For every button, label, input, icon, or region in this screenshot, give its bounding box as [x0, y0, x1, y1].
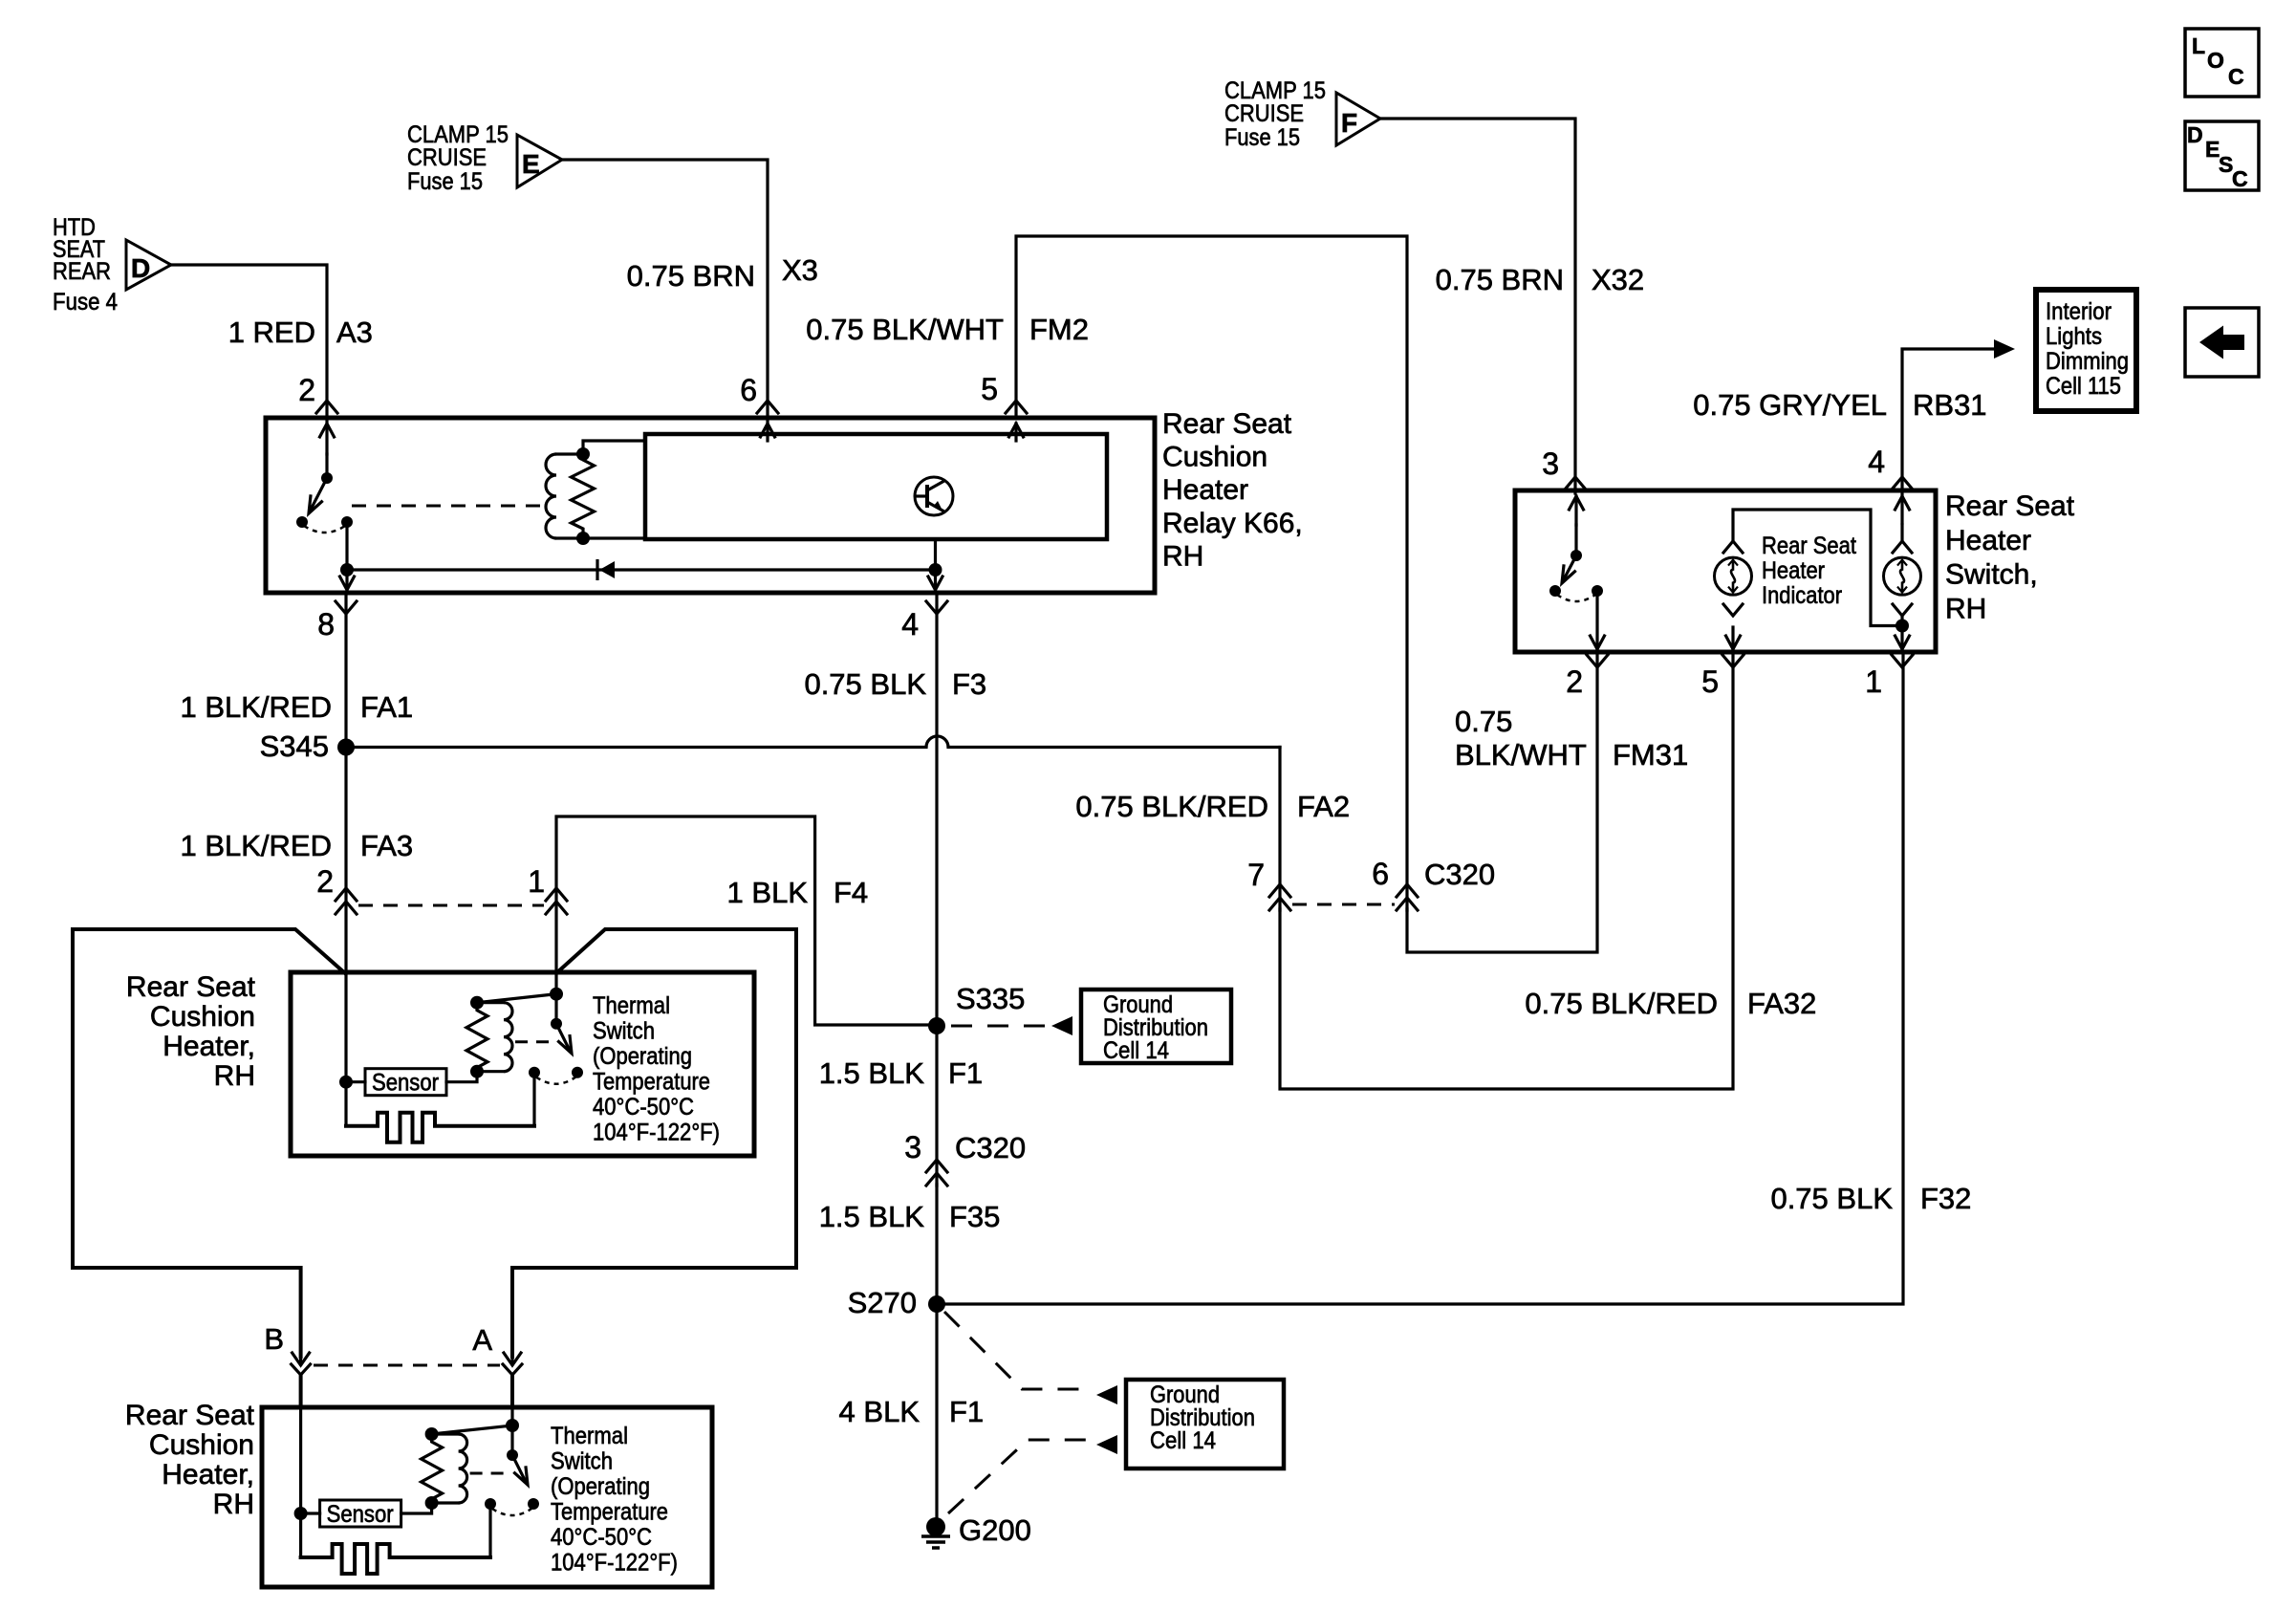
- relay pin 8 number: [317, 607, 335, 642]
- svg-text:Rear Seat: Rear Seat: [1162, 408, 1292, 440]
- label 0.75 BLK F3: [804, 667, 986, 701]
- svg-text:0.75 BLK/RED: 0.75 BLK/RED: [1075, 790, 1268, 823]
- heater1 RC junction dots: [470, 996, 484, 1078]
- switch lamp 2 chevrons: [1893, 541, 1912, 616]
- Interior Lights Dimming Cell 115 box: [2036, 290, 2136, 411]
- svg-text:Heater,: Heater,: [162, 1459, 254, 1490]
- svg-text:FA3: FA3: [360, 829, 413, 862]
- svg-text:Cell 14: Cell 14: [1103, 1037, 1169, 1064]
- wire RB31 switch pin4 to Interior Lights Dimming (0.75 GRY/YEL): [1902, 339, 2015, 493]
- heater 2 label: [125, 1400, 255, 1520]
- svg-text:4: 4: [1868, 445, 1885, 479]
- label 0.75 BLK/WHT FM2: [806, 313, 1089, 346]
- label G200: [959, 1513, 1031, 1547]
- svg-text:1 BLK/RED: 1 BLK/RED: [180, 690, 332, 724]
- heater1 heating element: [346, 1113, 534, 1142]
- svg-text:FM2: FM2: [1029, 313, 1089, 346]
- relay pin 8 wire and terminal: [336, 522, 357, 614]
- wire F to switch pin 3 (0.75 BRN X32): [1380, 119, 1575, 493]
- heater1 sensor left junction dot: [339, 1076, 353, 1089]
- heater1 switch to element wire: [532, 1073, 535, 1126]
- svg-text:2: 2: [1566, 664, 1583, 699]
- fuse D text: [53, 214, 118, 315]
- heater connector pin 2 number: [316, 864, 334, 899]
- svg-text:F32: F32: [1920, 1182, 1971, 1215]
- wire E to relay pin 6 (0.75 BRN X3): [562, 160, 768, 421]
- svg-text:Rear Seat: Rear Seat: [126, 971, 256, 1003]
- heater2 thermal switch dashed arc: [492, 1509, 531, 1515]
- svg-text:Sensor: Sensor: [372, 1070, 439, 1097]
- svg-text:1 BLK: 1 BLK: [727, 876, 809, 909]
- switch pin 2 number: [1566, 664, 1583, 699]
- svg-text:Switch: Switch: [593, 1018, 655, 1045]
- switch pin 5 wire and terminal: [1722, 627, 1744, 667]
- svg-text:(Operating: (Operating: [593, 1043, 692, 1070]
- svg-text:Cushion: Cushion: [150, 1001, 255, 1033]
- heater1 right pin junction dot: [550, 988, 563, 1001]
- label 1.5 BLK F1: [819, 1056, 984, 1090]
- indicator lamp text: [1762, 533, 1856, 609]
- svg-text:F3: F3: [952, 667, 986, 701]
- fuse symbol F (CLAMP 15 CRUISE Fuse 15): [1336, 93, 1380, 145]
- heater1 thermal switch wire: [554, 972, 557, 1024]
- wire FA32 C320 pin7 to switch pin 5 (0.75 BLK/RED): [1280, 654, 1733, 1089]
- wire F4 heater pin1 to S335 (1 BLK): [556, 816, 937, 1025]
- switch lamp junction dot: [1895, 620, 1909, 633]
- heater1 thermal link dashed: [515, 1040, 549, 1043]
- S335 dashed reference to Ground Distribution: [951, 1016, 1072, 1035]
- heater1 inductor: [477, 1003, 512, 1072]
- connector B terminal: [292, 1353, 311, 1407]
- wire F32 switch pin1 to S270 (0.75 BLK): [937, 654, 1903, 1304]
- wire F1 S270 to G200 (4 BLK): [935, 1304, 938, 1518]
- switch arm: [1562, 555, 1576, 583]
- svg-text:Lights: Lights: [2046, 323, 2102, 350]
- svg-text:Indicator: Indicator: [1762, 582, 1842, 609]
- relay pin 2 terminal: [316, 401, 337, 454]
- label 1 BLK F4: [727, 876, 869, 909]
- svg-text:E: E: [522, 149, 540, 179]
- relay transistor Q1: [915, 477, 953, 515]
- wire FA2 S345 to C320 pin7 (0.75 BLK/RED) with hop over F3: [346, 736, 1280, 910]
- svg-text:2: 2: [298, 373, 315, 407]
- switch pivot: [1570, 550, 1582, 561]
- heater2 resistor: [422, 1434, 443, 1503]
- svg-text:CRUISE: CRUISE: [407, 144, 487, 171]
- svg-text:Thermal: Thermal: [593, 992, 670, 1019]
- connector C320 dashed mating line: [1292, 903, 1395, 906]
- label 0.75 BLK F32: [1770, 1182, 1971, 1215]
- svg-text:RH: RH: [1945, 593, 1986, 624]
- relay switch contact wire: [325, 454, 328, 478]
- svg-text:Cushion: Cushion: [1162, 442, 1267, 473]
- svg-text:7: 7: [1247, 858, 1265, 892]
- label 4 BLK F1: [839, 1395, 985, 1428]
- switch pin 3 terminal: [1565, 477, 1586, 525]
- wire FM2 relay pin5 to C320 pin 6 (0.75 BLK/WHT): [1016, 236, 1407, 910]
- switch pin 4 terminal: [1892, 477, 1913, 523]
- heater connector pin 1 number: [528, 864, 545, 899]
- relay coil to module wires: [583, 441, 645, 538]
- svg-text:RH: RH: [214, 1060, 255, 1092]
- relay K66 label: [1162, 408, 1303, 572]
- heater1 resistor: [466, 1003, 487, 1072]
- svg-text:Cushion: Cushion: [149, 1429, 254, 1461]
- svg-text:D: D: [131, 253, 150, 283]
- label 3 C320: [904, 1130, 1026, 1164]
- heater2 heating element: [301, 1544, 490, 1574]
- connector C320 pin 7: [1269, 884, 1290, 910]
- label S270: [848, 1286, 917, 1319]
- heater2 left pin wire: [299, 1407, 302, 1557]
- heater2 sensor lead: [301, 1512, 320, 1514]
- svg-text:3: 3: [904, 1130, 921, 1164]
- heater1 sensor lead: [346, 1080, 365, 1083]
- svg-text:0.75 BLK/RED: 0.75 BLK/RED: [1525, 987, 1718, 1020]
- heater2 sensor to RC wire: [401, 1503, 432, 1513]
- heater2 thermal switch contacts: [485, 1498, 539, 1510]
- svg-text:X3: X3: [782, 253, 818, 287]
- label 0.75 BLK/RED FA2: [1075, 790, 1350, 823]
- wire FM31 C320 pin6 to switch pin 2 (0.75 BLK/WHT): [1407, 654, 1597, 952]
- svg-text:3: 3: [1542, 446, 1559, 481]
- svg-text:Interior: Interior: [2046, 298, 2112, 325]
- svg-text:4: 4: [901, 607, 919, 642]
- svg-text:4 BLK: 4 BLK: [839, 1395, 921, 1428]
- heater1 left pin wire: [344, 972, 347, 1126]
- heater2 right pin junction dot: [506, 1419, 519, 1432]
- relay diode line: [347, 568, 936, 571]
- switch pin 2 wire and terminal: [1587, 591, 1608, 667]
- heater2 thermal link dashed: [470, 1472, 505, 1475]
- svg-text:104°F-122°F): 104°F-122°F): [593, 1120, 720, 1146]
- svg-text:FA32: FA32: [1747, 987, 1816, 1020]
- svg-text:C320: C320: [1424, 858, 1495, 891]
- svg-text:Temperature: Temperature: [593, 1069, 710, 1096]
- svg-text:B: B: [264, 1322, 284, 1356]
- wire heater1 pin2 branch to connector B: [73, 929, 345, 1357]
- svg-text:40°C-50°C: 40°C-50°C: [593, 1094, 694, 1120]
- indicator lamp chevrons: [1723, 541, 1743, 616]
- svg-text:8: 8: [317, 607, 335, 642]
- label S335: [956, 982, 1025, 1015]
- relay coil L1 (inductor): [546, 454, 583, 538]
- LOC reference box: [2185, 29, 2259, 97]
- heater1 top junction to right pin wire: [477, 994, 556, 1003]
- heater2 sensor left junction dot: [294, 1507, 308, 1520]
- svg-text:S270: S270: [848, 1286, 917, 1319]
- heater connector dashed mating line: [358, 904, 544, 907]
- svg-text:C320: C320: [955, 1131, 1026, 1164]
- switch lamp 2 wire: [1900, 525, 1903, 648]
- svg-text:Fuse 15: Fuse 15: [407, 168, 483, 195]
- svg-text:1.5 BLK: 1.5 BLK: [819, 1200, 925, 1233]
- svg-text:BLK/WHT: BLK/WHT: [1455, 738, 1587, 772]
- heater2 thermal switch wire: [510, 1407, 513, 1455]
- wire F3 relay pin4 to S335 (0.75 BLK): [935, 593, 938, 1026]
- svg-text:S345: S345: [260, 729, 329, 763]
- svg-text:104°F-122°F): 104°F-122°F): [551, 1550, 678, 1577]
- svg-text:6: 6: [1372, 857, 1389, 891]
- connector B/A dashed mating line: [314, 1364, 500, 1367]
- svg-text:Rear Seat: Rear Seat: [125, 1400, 255, 1431]
- svg-text:Fuse 15: Fuse 15: [1224, 124, 1300, 151]
- fuse E text: [407, 121, 509, 195]
- svg-text:5: 5: [981, 372, 998, 406]
- relay pin 5 terminal: [1006, 401, 1027, 441]
- indicator lamp wire top: [1733, 510, 1902, 626]
- Ground Distribution Cell 14 box upper: [1081, 990, 1231, 1064]
- connector A letter: [472, 1323, 492, 1357]
- switch lamp 2: [1884, 557, 1921, 595]
- svg-text:A3: A3: [336, 315, 373, 349]
- switch label: [1945, 490, 2075, 624]
- svg-text:D: D: [2187, 122, 2203, 147]
- svg-text:1: 1: [528, 864, 545, 899]
- splice S335: [928, 1017, 945, 1034]
- svg-text:Rear Seat: Rear Seat: [1762, 533, 1856, 559]
- heater 2 box outline (Rear Seat Cushion Heater RH): [262, 1407, 712, 1587]
- svg-text:1 RED: 1 RED: [228, 315, 315, 349]
- svg-text:F4: F4: [834, 876, 868, 909]
- heater2 top junction to right pin wire: [432, 1425, 512, 1434]
- svg-text:Switch: Switch: [551, 1448, 613, 1475]
- heater1 thermal switch arm: [556, 1024, 572, 1054]
- label 1.5 BLK F35: [819, 1200, 1001, 1233]
- svg-text:F35: F35: [949, 1200, 1000, 1233]
- label S345: [260, 729, 329, 763]
- relay diode D1: [597, 559, 615, 580]
- wire FA1 relay pin8 to S345 (1 BLK/RED): [344, 593, 347, 748]
- svg-text:0.75 BRN: 0.75 BRN: [1436, 263, 1564, 296]
- svg-text:Heater: Heater: [1162, 474, 1248, 506]
- heater connector pin 1: [546, 888, 567, 914]
- switch pin 3 number: [1542, 446, 1559, 481]
- relay pin 6 terminal: [757, 401, 778, 441]
- splice S270: [928, 1295, 945, 1313]
- heater1 thermal switch pivot: [551, 1018, 562, 1030]
- svg-text:0.75 BLK: 0.75 BLK: [804, 667, 926, 701]
- svg-text:Dimming: Dimming: [2046, 348, 2129, 375]
- switch box outline: [1515, 490, 1936, 652]
- relay switch contacts: [296, 516, 353, 528]
- svg-text:RB31: RB31: [1913, 388, 1987, 422]
- relay coil parallel resistor R1: [572, 454, 595, 538]
- relay pin 6 number: [740, 373, 757, 407]
- relay coil junction dots: [576, 447, 590, 545]
- svg-text:0.75 BRN: 0.75 BRN: [627, 259, 755, 293]
- wire FA3 S345 to heater connector pin 2 (1 BLK/RED): [344, 748, 347, 974]
- svg-text:F1: F1: [949, 1395, 984, 1428]
- svg-text:(Operating: (Operating: [551, 1473, 650, 1500]
- svg-text:5: 5: [1701, 664, 1719, 699]
- svg-text:L: L: [2192, 33, 2205, 58]
- heater 1 thermal switch text: [593, 992, 720, 1146]
- svg-text:Heater,: Heater,: [162, 1031, 255, 1062]
- switch dashed arc: [1557, 595, 1595, 601]
- heater connector pin 2: [336, 888, 357, 914]
- svg-text:CRUISE: CRUISE: [1224, 100, 1304, 127]
- svg-text:FA1: FA1: [360, 690, 413, 724]
- label 0.75 BLK/RED FA32: [1525, 987, 1816, 1020]
- label 1 BLK/RED FA3: [180, 829, 413, 862]
- svg-text:Heater: Heater: [1945, 525, 2031, 556]
- svg-text:Heater: Heater: [1762, 557, 1825, 584]
- relay switch pivot: [321, 472, 333, 484]
- connector C320 pin 7 number: [1247, 858, 1265, 892]
- relay pin 4 number: [901, 607, 919, 642]
- wire heater1 pin1 branch to connector A: [512, 929, 796, 1357]
- svg-text:RH: RH: [1162, 540, 1203, 572]
- heater2 thermal switch arm: [512, 1455, 528, 1485]
- svg-text:X32: X32: [1592, 263, 1644, 296]
- back-arrow box: [2185, 308, 2259, 377]
- svg-text:Rear Seat: Rear Seat: [1945, 490, 2075, 522]
- heater 1 box outline (Rear Seat Cushion Heater RH): [291, 972, 754, 1156]
- label 1 BLK/RED FA1: [180, 690, 413, 724]
- svg-text:RH: RH: [213, 1489, 254, 1520]
- fuse symbol D (HTD SEAT REAR Fuse 4): [126, 240, 171, 290]
- indicator lamp (Rear Seat Heater Indicator): [1715, 557, 1752, 595]
- label 0.75 BLK/WHT FM31: [1455, 705, 1688, 772]
- switch pin 5 number: [1701, 664, 1719, 699]
- svg-text:C: C: [2232, 166, 2248, 191]
- svg-text:0.75 BLK: 0.75 BLK: [1770, 1182, 1893, 1215]
- svg-text:0.75 GRY/YEL: 0.75 GRY/YEL: [1693, 388, 1887, 422]
- svg-text:FM31: FM31: [1613, 738, 1688, 772]
- switch contacts: [1549, 585, 1603, 597]
- svg-text:F1: F1: [948, 1056, 983, 1090]
- heater2 sensor box: [320, 1500, 401, 1528]
- svg-text:Thermal: Thermal: [551, 1423, 628, 1449]
- switch contact wire: [1574, 525, 1577, 555]
- svg-text:40°C-50°C: 40°C-50°C: [551, 1524, 652, 1551]
- wire F35 C320 pin3 to S270 (1.5 BLK): [935, 1185, 938, 1304]
- connector C320 pin 6: [1397, 884, 1418, 910]
- label 0.75 BRN X3: [627, 253, 818, 293]
- svg-text:Cell 14: Cell 14: [1150, 1427, 1216, 1454]
- ground symbol G200: [921, 1517, 950, 1548]
- heater1 sensor to RC wire: [446, 1072, 477, 1082]
- label 1 RED A3: [228, 315, 373, 349]
- wire F1 S335 to C320 pin3 (1.5 BLK): [935, 1026, 938, 1186]
- svg-text:1: 1: [1865, 664, 1882, 699]
- label 0.75 GRY/YEL RB31: [1693, 388, 1986, 422]
- relay pin 4 wire and terminal: [926, 539, 947, 614]
- heater1 thermal switch contacts: [529, 1067, 583, 1078]
- relay K66 box outline: [266, 418, 1155, 593]
- svg-text:6: 6: [740, 373, 757, 407]
- svg-text:Temperature: Temperature: [551, 1499, 668, 1526]
- svg-text:Relay K66,: Relay K66,: [1162, 508, 1303, 539]
- switch pin 1 number: [1865, 664, 1882, 699]
- heater 2 thermal switch text: [551, 1423, 678, 1577]
- svg-text:1 BLK/RED: 1 BLK/RED: [180, 829, 332, 862]
- wire D to relay pin 2 (1 RED A3): [171, 265, 327, 421]
- heater2 thermal switch pivot: [507, 1449, 518, 1461]
- svg-text:Cell 115: Cell 115: [2046, 373, 2121, 400]
- connector C320 pin 6 number and name: [1372, 857, 1495, 891]
- svg-text:0.75 BLK/WHT: 0.75 BLK/WHT: [806, 313, 1004, 346]
- svg-text:F: F: [1341, 108, 1357, 138]
- relay switch arm: [309, 478, 327, 513]
- DESC reference box: [2185, 121, 2259, 191]
- connector B letter: [264, 1322, 284, 1356]
- svg-text:Switch,: Switch,: [1945, 559, 2038, 591]
- Ground Distribution Cell 14 box lower: [1126, 1380, 1284, 1469]
- heater1 sensor box: [365, 1069, 446, 1097]
- label 0.75 BRN X32: [1436, 263, 1645, 296]
- svg-text:S335: S335: [956, 982, 1025, 1015]
- connector A terminal: [503, 1353, 522, 1407]
- connector C320 pin 3: [926, 1160, 947, 1186]
- svg-text:A: A: [472, 1323, 492, 1357]
- relay diode junction dots: [340, 563, 942, 577]
- heater2 inductor: [432, 1434, 467, 1503]
- relay pin 2 number: [298, 373, 315, 407]
- svg-text:C: C: [2228, 64, 2244, 89]
- svg-text:0.75: 0.75: [1455, 705, 1512, 738]
- relay coil actuation dashed link: [352, 505, 541, 508]
- svg-text:O: O: [2207, 48, 2224, 73]
- svg-text:REAR: REAR: [53, 258, 111, 285]
- relay switch dashed arc: [304, 526, 345, 533]
- heater 1 label: [126, 971, 256, 1092]
- relay pin 5 number: [981, 372, 998, 406]
- heater1 thermal switch dashed arc: [536, 1077, 575, 1084]
- S270 dashed reference to Ground Distribution: [944, 1312, 1117, 1404]
- svg-text:2: 2: [316, 864, 334, 899]
- switch pin 1 terminal: [1892, 636, 1913, 667]
- fuse symbol E (CLAMP 15 CRUISE Fuse 15): [517, 135, 562, 187]
- heater2 switch to element wire: [488, 1504, 491, 1557]
- svg-text:FA2: FA2: [1297, 790, 1350, 823]
- svg-text:Sensor: Sensor: [327, 1501, 394, 1528]
- svg-text:G200: G200: [959, 1513, 1031, 1547]
- G200 dashed reference to Ground Distribution: [948, 1435, 1117, 1513]
- switch pin 4 number: [1868, 445, 1885, 479]
- splice S345: [337, 739, 355, 756]
- svg-text:Fuse 4: Fuse 4: [53, 289, 118, 315]
- fuse F text: [1224, 77, 1326, 151]
- relay electronics module box: [645, 434, 1107, 539]
- svg-text:1.5 BLK: 1.5 BLK: [819, 1056, 925, 1090]
- heater2 RC junction dots: [425, 1427, 439, 1510]
